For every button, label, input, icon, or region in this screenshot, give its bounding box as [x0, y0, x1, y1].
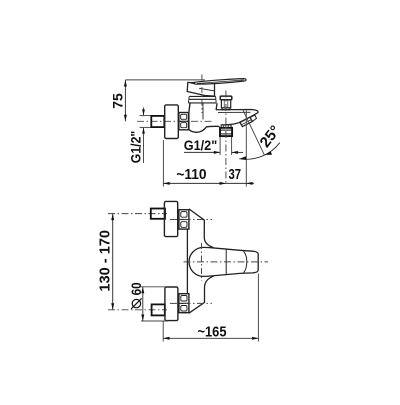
- spout deck (side view): [216, 110, 258, 125]
- wall pipe top (plan): [151, 209, 165, 219]
- pipe centerline top (plan): [108, 213, 167, 215]
- inlet centerline top (plan): [170, 219, 212, 221]
- lever handle hood (side view): [187, 82, 214, 96]
- svg-text:G1/2": G1/2": [128, 131, 144, 164]
- dimension 75: dimension line: [124, 80, 126, 121]
- svg-text:130 - 170: 130 - 170: [97, 230, 113, 292]
- hex nut top (plan): [179, 210, 189, 229]
- svg-text:60: 60: [128, 282, 144, 295]
- centerline horizontal (pipe axis, side view): [137, 120, 214, 122]
- bottom outlet nut (side view): [220, 128, 232, 136]
- dimension 130-170: dimension line: [112, 214, 114, 310]
- mixer body (side view): [189, 103, 220, 132]
- hex nut bottom (plan): [179, 294, 189, 313]
- svg-text:37: 37: [229, 167, 242, 183]
- dimension d60: diameter symbol: [131, 298, 141, 308]
- dimension ~110/37: extension line left: [162, 140, 164, 187]
- dimension d60: extension lines: [139, 287, 168, 321]
- escutcheon bottom (plan): [165, 287, 178, 321]
- hex nut (side view): [179, 113, 189, 130]
- dimension 130-170: arrowheads: [111, 214, 114, 310]
- handle axis centerline (plan): [201, 243, 203, 281]
- pipe centerline bottom (plan): [108, 309, 167, 311]
- 25 degree arc arrowheads: [239, 151, 272, 161]
- dimension 75: extension line top: [125, 79, 205, 81]
- dimension G1/2 left: arrowheads: [142, 109, 145, 133]
- shower outlet (top, side view): [220, 96, 232, 110]
- lever handle arm (side view): [191, 79, 247, 85]
- spout tip extension line: [245, 110, 247, 186]
- handle collar cap (side view): [188, 96, 216, 103]
- body column (plan): [187, 209, 213, 313]
- dimension G1/2 left: extension lines: [140, 108, 152, 164]
- 25 degree ray: [243, 109, 265, 155]
- dimension 75: arrowheads: [124, 80, 127, 121]
- dimension ~110/37: dimension line: [163, 182, 254, 184]
- svg-text:G1/2": G1/2": [184, 137, 218, 153]
- cartridge axis centerline (side view): [201, 75, 203, 114]
- 25 degree arc: [239, 143, 279, 160]
- aerator (tilted, side view): [240, 115, 257, 127]
- dimension ~110/37: arrowheads: [163, 182, 252, 185]
- dimension ~165: extension lines: [163, 274, 258, 342]
- body horizontal centerline (plan): [184, 261, 269, 263]
- svg-text:75: 75: [110, 93, 126, 109]
- bottom outlet threaded section (side view): [221, 125, 231, 128]
- dimension ~165: dimension line: [163, 337, 258, 339]
- dimension d60: dimension line: [142, 287, 144, 321]
- main vertical centerline (outlet axis): [225, 91, 227, 184]
- inlet centerline bottom (plan): [170, 302, 212, 304]
- dimension G1/2 bottom: leader and arrows: [184, 151, 243, 153]
- wall pipe bottom (plan): [152, 304, 165, 315]
- escutcheon (side view): [165, 105, 179, 139]
- dimension ~165: arrowheads: [163, 337, 258, 340]
- dimension d60: arrowheads: [141, 287, 144, 321]
- escutcheon top (plan): [164, 201, 177, 236]
- svg-text:~165: ~165: [198, 323, 227, 340]
- extension lines below nut: [220, 137, 232, 155]
- svg-text:~110: ~110: [176, 167, 206, 183]
- wall pipe (side view): [151, 116, 164, 127]
- handle capsule (plan): [189, 247, 258, 276]
